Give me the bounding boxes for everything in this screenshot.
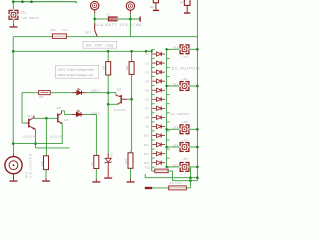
node ST3 rail [196, 128, 199, 131]
diode D12 [152, 152, 165, 156]
wire BAT- pin [129, 10, 131, 14]
diode D2 [152, 61, 165, 65]
connector ST1 +7V [179, 44, 189, 54]
wire FU1 row [152, 187, 169, 189]
transistor Q1 A1015 [26, 116, 35, 130]
wire BAT+ pin [94, 10, 96, 14]
svg-text:A1015: A1015 [50, 135, 62, 139]
diode D4 [152, 79, 165, 83]
terminal BAT+ circle [91, 1, 99, 9]
node dist R3 [130, 50, 133, 53]
svg-text:10A: 10A [50, 28, 56, 32]
terminal bar [145, 187, 152, 189]
node ladder ST4 [165, 146, 167, 148]
fuse F1 [108, 16, 119, 21]
svg-text:A1015: A1015 [23, 134, 35, 138]
node F12-FU1 [189, 179, 192, 182]
wire ladder rung 2 [152, 57, 155, 59]
wire ladder rung 8 [152, 112, 155, 114]
wire ST4 right [189, 146, 198, 148]
svg-text:10k: 10k [102, 65, 106, 70]
svg-text:R1: R1 [39, 95, 43, 99]
node A-197 [196, 176, 199, 179]
svg-text:LED 1: LED 1 [91, 89, 100, 93]
socket BU1 CIG LIGHTER [5, 157, 22, 174]
svg-text:D1: D1 [145, 52, 149, 56]
wire Q2 base [127, 98, 132, 100]
svg-text:D8: D8 [145, 116, 149, 120]
wire gnd return A [145, 177, 197, 179]
svg-text:D5: D5 [145, 88, 149, 92]
svg-text:1k: 1k [90, 162, 94, 166]
diode D3 [152, 70, 165, 74]
note ON-OFF-Chg box [83, 41, 117, 48]
wire ladder rung 9 [152, 121, 155, 123]
jumper JP2 [184, 0, 190, 14]
wire ST2 left [167, 85, 181, 87]
connector ST1 DC INPUT [8, 10, 18, 20]
svg-text:F12: F12 [145, 166, 150, 170]
svg-text:+5V: +5V [182, 139, 189, 143]
ground BU1 [13, 174, 15, 181]
svg-text:DC INPUT: DC INPUT [23, 16, 40, 20]
node ladder top [151, 50, 153, 52]
node ST5 rail [196, 166, 199, 169]
svg-text:ST2: ST2 [173, 82, 179, 86]
wire cig feed [12, 144, 14, 154]
wire Q2 collector jog [115, 93, 117, 96]
svg-text:ST1: ST1 [173, 46, 179, 50]
svg-text:CIG LIGHTER: CIG LIGHTER [28, 153, 32, 178]
svg-text:D9: D9 [145, 125, 149, 129]
wire top BAT+ [13, 1, 76, 3]
wire ST5 left [167, 166, 181, 168]
wire Q1 collector row [34, 117, 58, 119]
wire R2 bottom / zener line [107, 75, 109, 155]
svg-text:5V6: 5V6 [110, 152, 114, 158]
node ST2 rail [196, 85, 199, 88]
node A-190 [189, 176, 192, 179]
wire ladder rung 6 [152, 94, 155, 96]
svg-text:LED1: Output Voltage High: LED1: Output Voltage High [58, 68, 94, 72]
ground R4 [45, 170, 47, 178]
ground ST1 [13, 24, 15, 26]
wire F12 out [168, 170, 172, 172]
wire Q3 collector to LED2 [62, 110, 65, 112]
svg-text:Q3: Q3 [56, 106, 60, 110]
resistor R1 [39, 91, 51, 95]
transistor Q3 A1015 [58, 111, 62, 124]
resistor R2 [107, 51, 109, 61]
wire ST3 left [167, 128, 181, 130]
svg-text:1k5: 1k5 [64, 118, 69, 122]
wire ST2 right [189, 85, 198, 87]
svg-text:D12: D12 [144, 152, 150, 156]
connector ST4 +5V [179, 142, 189, 152]
svg-text:DC OUTPUTs: DC OUTPUTs [172, 67, 200, 71]
resistor R4 [44, 156, 49, 170]
LED LED1 [73, 88, 86, 95]
svg-text:D3: D3 [145, 70, 149, 74]
diode D1 [152, 52, 165, 56]
wire ladder rung 7 [152, 103, 155, 105]
node dist D1 [145, 50, 148, 53]
svg-text:FL2: FL2 [62, 28, 68, 32]
wire ladder rung 13 [152, 157, 155, 159]
node ladder ST2 [165, 85, 167, 87]
connector ST2 +9V [179, 81, 189, 91]
node bat junction right [129, 18, 132, 21]
wire dist row [13, 50, 152, 52]
node zline emitter [107, 103, 110, 106]
resistor R5 [94, 155, 99, 168]
connector ST5 +5V [179, 162, 189, 172]
wire bat- to switch row [129, 19, 131, 37]
svg-text:ST3: ST3 [173, 126, 179, 130]
transistor Q2 C1815 [116, 95, 127, 105]
node zline led1 [107, 92, 110, 95]
svg-text:(2x 18650): (2x 18650) [170, 112, 189, 116]
svg-text:ST4: ST4 [173, 143, 179, 147]
diode D8 [152, 115, 165, 119]
svg-text:+9V: +9V [182, 120, 189, 124]
wire ladder rung 1 [152, 48, 155, 50]
note LED voltage box [56, 65, 99, 78]
resistor R3 [131, 51, 133, 61]
svg-text:3k3: 3k3 [124, 159, 128, 164]
wire ladder left rail [151, 49, 153, 167]
diode D6 [152, 97, 165, 101]
svg-text:ST1: ST1 [20, 11, 26, 15]
node rail emitter [34, 142, 37, 145]
wire Q2 emitter [108, 103, 117, 105]
svg-text:Q1: Q1 [28, 114, 32, 118]
diode D13 [152, 161, 165, 165]
wire bottom +12 rail [13, 143, 62, 145]
switch SP1 lever [95, 30, 98, 36]
wire dist to ladder [146, 50, 152, 52]
node ST4 rail [196, 146, 199, 149]
LED LED2 [72, 110, 85, 117]
fuse F12 [155, 169, 168, 173]
svg-text:D6: D6 [145, 98, 149, 102]
wire Q1 base feed [21, 93, 23, 123]
wire ST5 right [189, 166, 198, 168]
wire switch row [13, 36, 52, 38]
wire R4 drop [45, 118, 47, 156]
node bat junction left [93, 18, 96, 21]
wire ladder rung 3 [152, 67, 155, 69]
svg-text:+9V: +9V [182, 77, 189, 81]
node ladder ST1 [165, 48, 167, 50]
svg-text:ST5: ST5 [173, 163, 179, 167]
wire ST3 right [189, 128, 198, 130]
wire ladder rung 10 [152, 130, 155, 132]
wire ladder rung 4 [152, 76, 155, 78]
wire Q1 emitter [35, 129, 37, 143]
svg-text:SLA BATT 12V 17Ah: SLA BATT 12V 17Ah [94, 23, 142, 27]
ground R5 [95, 169, 97, 179]
wire R3-R6 [131, 150, 132, 153]
wire ST5 branch down [190, 167, 192, 188]
wire LED1 row [50, 92, 76, 94]
svg-text:JP2: JP2 [180, 0, 185, 4]
svg-text:D10: D10 [144, 134, 150, 138]
node top-junction-3 [30, 0, 33, 3]
wire ST1 right [189, 48, 198, 50]
wire end bar [139, 17, 140, 22]
wire ladder rung 14 [152, 166, 155, 168]
wire battery row [95, 18, 108, 20]
svg-text:LED2: Output Voltage Low: LED2: Output Voltage Low [58, 73, 94, 77]
svg-text:D2: D2 [145, 61, 149, 65]
wire ladder rung 5 [152, 85, 155, 87]
svg-text:10k: 10k [125, 65, 129, 70]
svg-text:LED 2: LED 2 [91, 112, 100, 116]
terminal BAT- circle [126, 2, 134, 10]
diode D11 [152, 143, 165, 147]
svg-text:+5V: +5V [182, 157, 189, 161]
wire Q3 emitter [61, 124, 63, 144]
svg-text:F1: F1 [106, 12, 110, 16]
svg-text:C1815: C1815 [114, 108, 126, 112]
wire ST4 left [167, 146, 181, 148]
ground R6 [130, 168, 132, 178]
jumper JP1 [153, 0, 159, 11]
diode D5 [152, 88, 165, 92]
node left-143 [12, 142, 15, 145]
diode D9 [152, 124, 165, 128]
zener diode ZD1 [105, 154, 112, 167]
svg-text:SP1: SP1 [85, 30, 91, 34]
node base node [130, 98, 133, 101]
node left-51 [12, 50, 15, 53]
svg-text:+7V: +7V [182, 55, 189, 59]
wire ladder to F12 [151, 167, 153, 171]
diode D7 [152, 106, 165, 110]
wire ST1 left [167, 48, 181, 50]
wire FU1 out [186, 187, 190, 189]
svg-text:2A FU1: 2A FU1 [170, 181, 183, 185]
wire right rail [196, 0, 198, 181]
svg-text:D4: D4 [145, 79, 149, 83]
node dist R2 [107, 50, 110, 53]
wire switch feed [94, 19, 96, 23]
wire ladder rung 12 [152, 148, 155, 150]
wire ST1 pin [13, 19, 15, 24]
node ST1 rail [196, 48, 199, 51]
svg-text:D13: D13 [144, 161, 150, 165]
svg-text:ON - OFF - Chg: ON - OFF - Chg [86, 43, 114, 47]
wire ladder rung 11 [152, 139, 155, 141]
svg-text:D11: D11 [144, 143, 149, 147]
wire Q1 base [22, 122, 26, 124]
ground ZD1 [107, 167, 109, 178]
connector ST3 +9V [179, 124, 189, 134]
wire rail jog [35, 144, 37, 148]
node Q1C-R4 [45, 117, 48, 120]
node ladder ST5 [165, 166, 167, 168]
wire R3 bottom [131, 74, 133, 151]
node top-junction-2 [21, 0, 24, 3]
diode D10 [152, 133, 165, 137]
fuse F2 10A [53, 34, 67, 39]
node ladder ST3 [165, 128, 167, 130]
wire ladder right rail [166, 49, 168, 167]
node top-junction-1 [12, 0, 15, 3]
wire ST1 drop [12, 2, 14, 11]
svg-text:Q2: Q2 [117, 88, 121, 92]
wire left rail [12, 37, 14, 144]
wire LED2 to R5 [83, 113, 97, 115]
fuse FU1 [169, 186, 187, 190]
svg-text:D7: D7 [145, 107, 149, 111]
svg-text:JP1: JP1 [150, 5, 155, 9]
resistor R6 [128, 153, 133, 169]
svg-text:10k: 10k [40, 161, 44, 166]
